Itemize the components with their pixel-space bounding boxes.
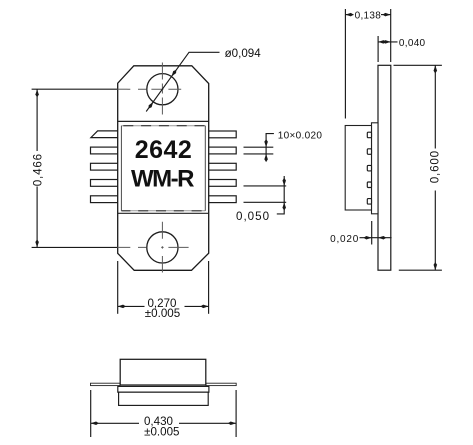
svg-text:10×0.020: 10×0.020 <box>278 130 323 141</box>
dim 10x0.020 arrow top <box>264 139 268 147</box>
dim 0,040 extension line <box>377 36 379 62</box>
dim 0,466 line <box>36 89 38 247</box>
dim 10x0.020 extension lines <box>244 147 274 154</box>
dim 0,040 arrow left <box>378 40 386 44</box>
svg-text:0,466: 0,466 <box>31 153 44 186</box>
dim 0,020 arrow left <box>364 236 372 240</box>
end view: lid plate <box>118 386 209 392</box>
front view: left lead L1 (chamfered pin-1) <box>91 131 122 138</box>
svg-text:±0.005: ±0.005 <box>145 307 180 320</box>
end view: flange bar <box>119 392 209 405</box>
side view: body <box>345 126 371 211</box>
dim 0,600 extension lines <box>394 65 442 270</box>
dim 0,138 extension lines <box>345 9 390 119</box>
dim 0,138 arrow right <box>383 13 391 17</box>
dim 0,600 arrow up <box>434 65 438 73</box>
dim 0,600 line <box>434 65 436 270</box>
dim 0,020 arrow right <box>378 236 386 240</box>
svg-text:WM-R: WM-R <box>131 165 194 192</box>
svg-text:2642: 2642 <box>135 136 193 164</box>
dim o0,094 arrow lower <box>149 102 154 109</box>
front view: flange body octagon <box>118 66 209 270</box>
side view: flange plate <box>378 65 391 270</box>
dim 0,466 arrow down <box>35 239 39 247</box>
svg-text:0,020: 0,020 <box>330 234 359 245</box>
dim 0,040 arrow right <box>383 40 391 44</box>
end view: right lead bar <box>206 383 236 385</box>
side view: lead tabs <box>367 132 371 204</box>
dim 0,050 arrow bottom <box>282 202 286 210</box>
svg-text:0,050: 0,050 <box>236 210 270 223</box>
dim 0,430 extension lines <box>91 390 236 437</box>
front view: lid step line bottom <box>118 212 209 214</box>
dim 0,270 arrow right <box>200 305 208 309</box>
front view: top mounting hole <box>147 74 178 105</box>
dim 0,466 extension line top <box>32 88 117 90</box>
dim 0,600 arrow down <box>434 262 438 270</box>
dim o0,094 leader <box>146 52 219 111</box>
dim 0,040 line <box>378 41 397 43</box>
dim 0,270 arrow left <box>118 305 126 309</box>
dim 0,270 line <box>118 305 209 307</box>
centerline: top hole vertical <box>161 63 163 115</box>
dim o0,094 arrow upper <box>172 70 177 77</box>
dim 0,138 line <box>345 14 390 16</box>
dim 0,138 arrow left <box>345 13 353 17</box>
svg-text:±0.005: ±0.005 <box>144 425 179 438</box>
centerline: top hole horizontal <box>118 88 189 90</box>
dim 0,430 line <box>91 422 236 424</box>
end view: left lead bar <box>91 383 121 385</box>
svg-text:0,138: 0,138 <box>355 11 382 22</box>
front view: left leads L2-L5 <box>91 147 122 203</box>
front view: lid step line top <box>118 120 209 122</box>
svg-text:ø0,094: ø0,094 <box>225 47 262 60</box>
dim 0,430 arrow right <box>228 422 236 426</box>
dim 0,050 line and hook <box>277 176 284 214</box>
front view: lid outline (gray under-line) <box>121 126 205 211</box>
svg-text:0,040: 0,040 <box>399 38 426 49</box>
dim 0,050 extension lines <box>244 186 287 202</box>
front view: right leads L6-L10 <box>205 131 236 203</box>
end view: body block <box>120 359 206 385</box>
dim 10x0.020 arrow bottom <box>264 154 268 162</box>
centerline: bottom hole horizontal <box>118 246 189 248</box>
dim 0,050 arrow top <box>282 178 286 186</box>
dim 10x0.020 line and hook <box>266 134 274 161</box>
svg-text:0,600: 0,600 <box>429 150 442 183</box>
dim 0,020 extension line <box>371 221 373 245</box>
dim 0,466 arrow up <box>35 89 39 97</box>
front view: bottom mounting hole <box>147 232 178 263</box>
centerline: bottom hole vertical <box>161 222 163 273</box>
dim 0,020 line <box>360 237 392 239</box>
dim 0,466 extension line bottom <box>32 246 117 248</box>
dim 0,430 arrow left <box>91 422 99 426</box>
dim 0,270 extension lines <box>118 261 209 314</box>
side view: lid slab <box>372 123 379 214</box>
